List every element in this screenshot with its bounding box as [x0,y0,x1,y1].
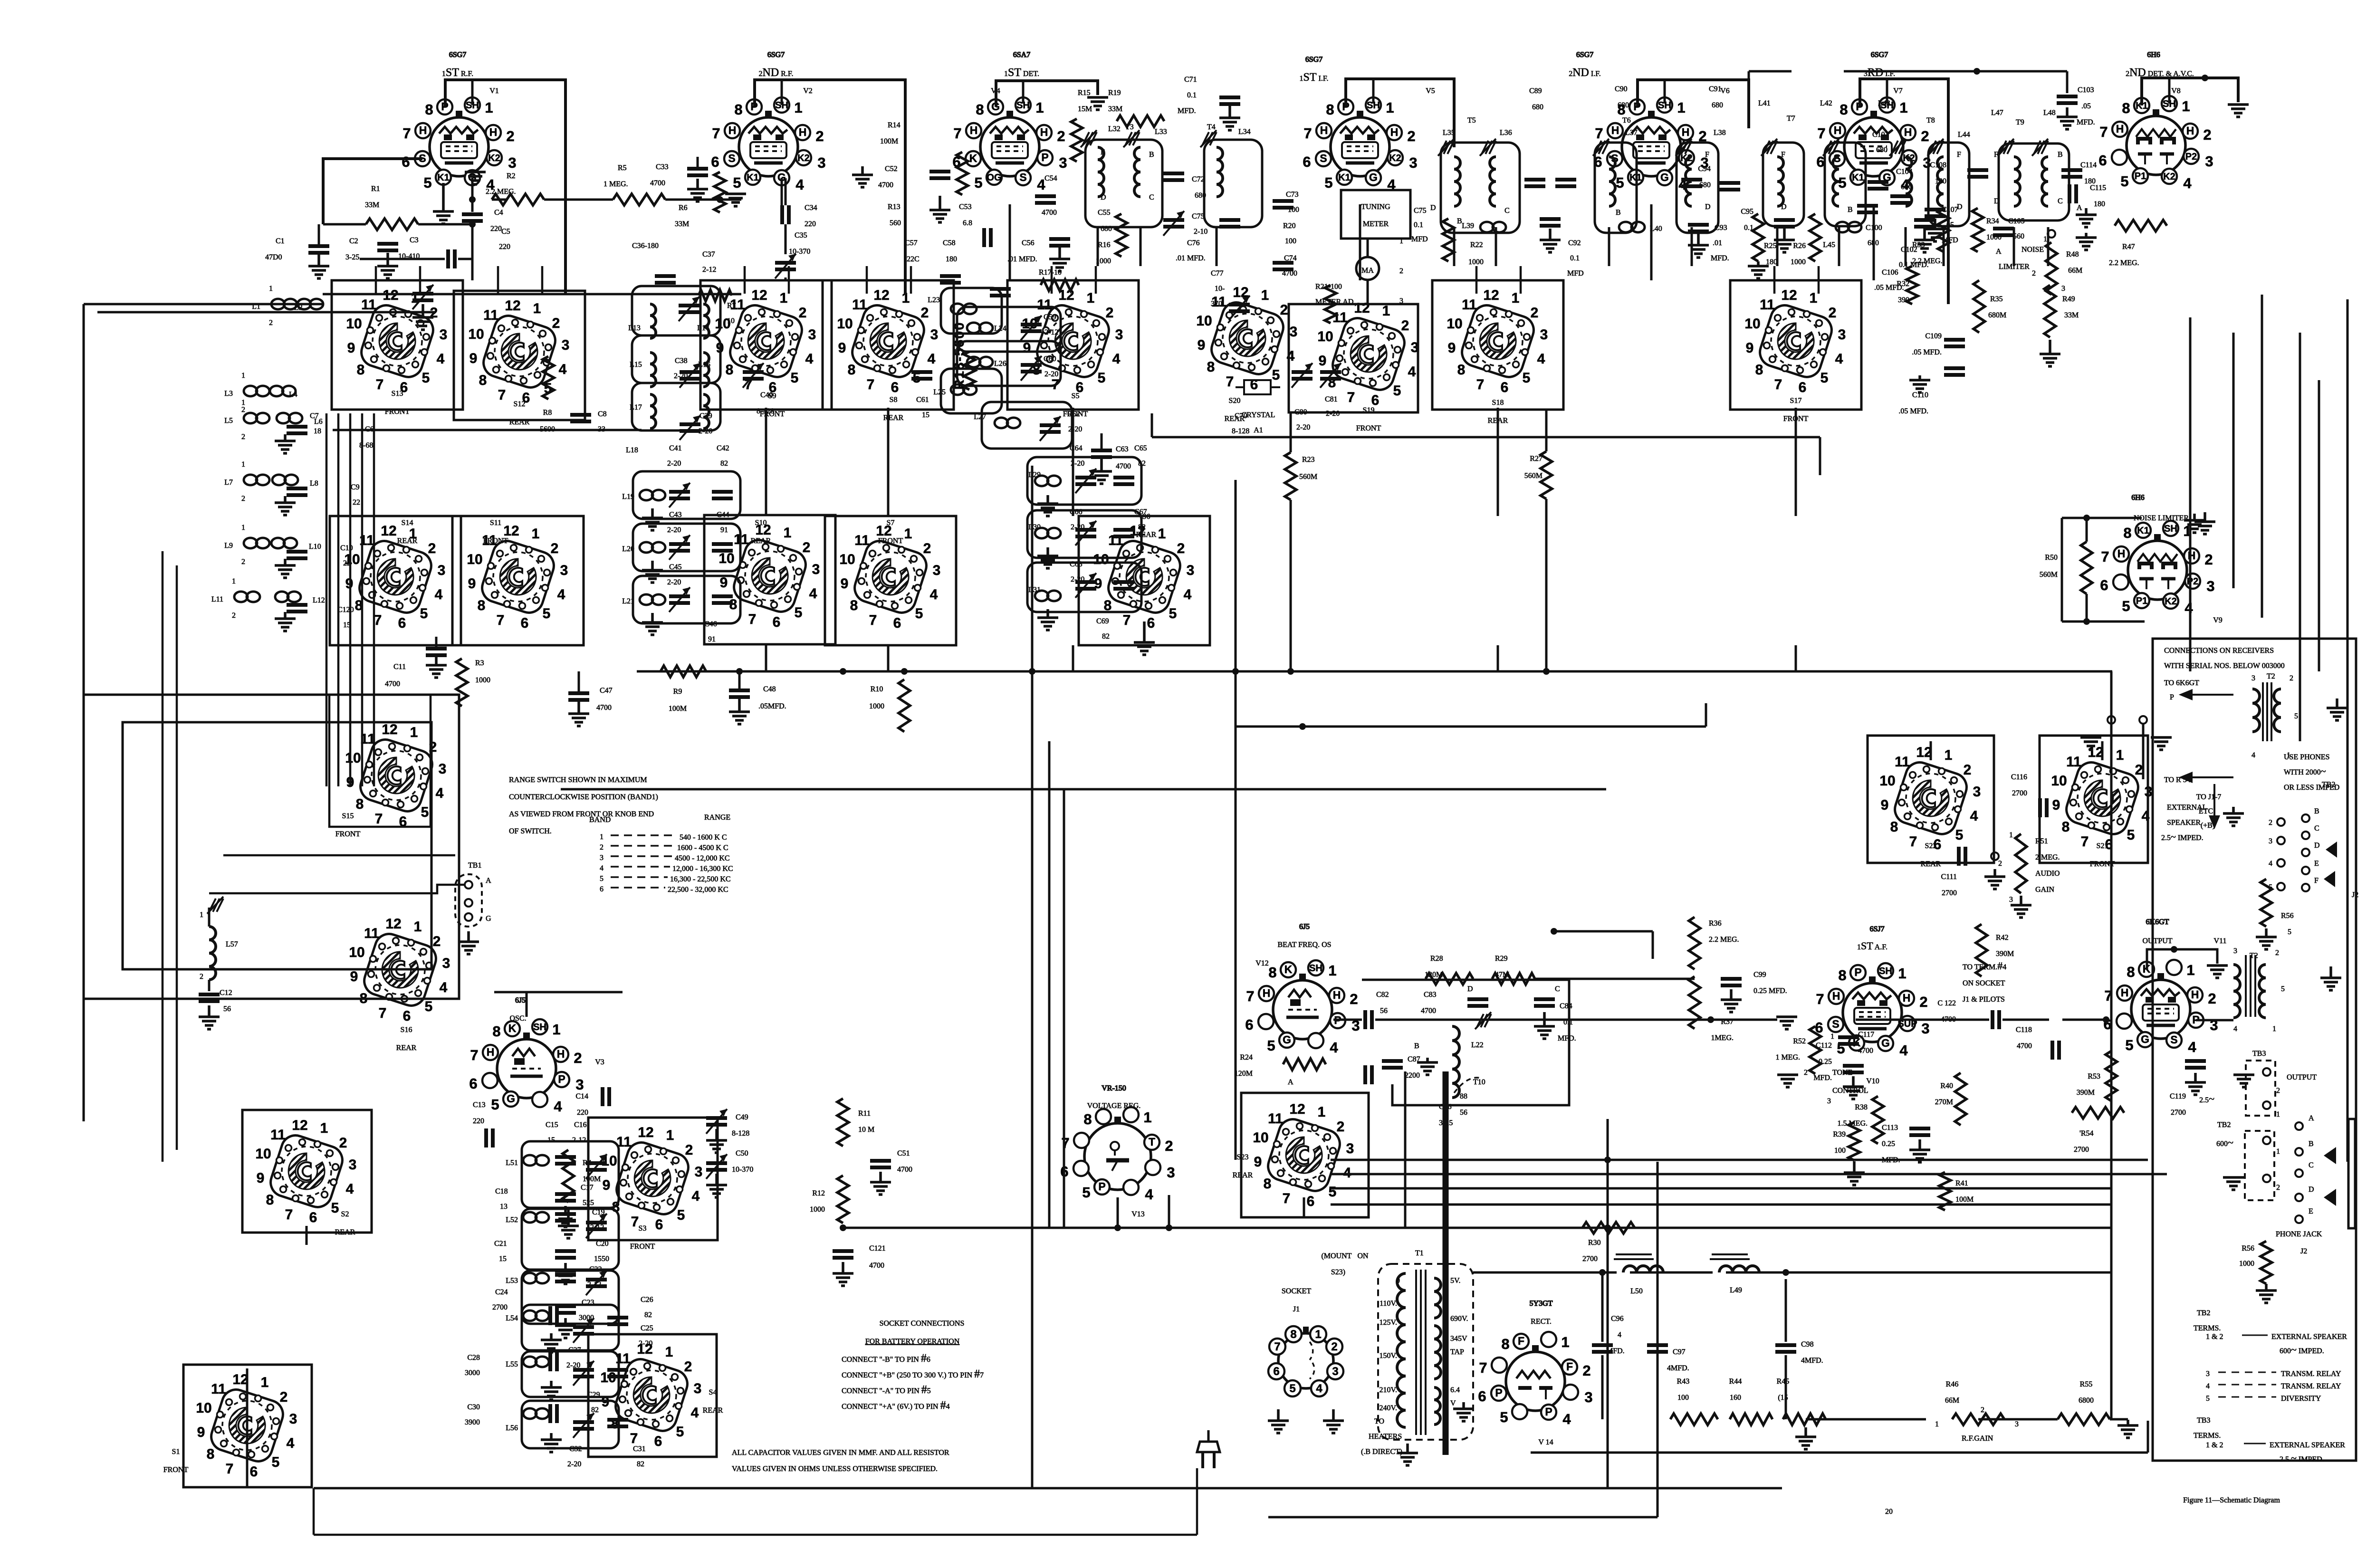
svg-text:H: H [2191,988,2199,1001]
svg-text:100M: 100M [1955,1195,1974,1204]
svg-text:L30: L30 [1028,523,1041,531]
svg-text:H: H [2121,986,2129,999]
svg-text:1: 1 [320,1120,328,1136]
svg-text:4MFD.: 4MFD. [1801,1357,1823,1365]
svg-text:8: 8 [1207,359,1215,375]
svg-text:7: 7 [869,612,877,628]
svg-text:L47: L47 [1991,109,2003,117]
svg-text:82: 82 [591,1406,599,1414]
svg-text:0.1: 0.1 [1187,91,1197,99]
svg-text:7: 7 [497,612,505,628]
svg-text:1MEG.: 1MEG. [1711,1034,1734,1042]
svg-text:15: 15 [499,1255,507,1263]
svg-text:4: 4 [346,1181,354,1197]
resistor R24 120M [1283,1059,1326,1070]
svg-text:V: V [1450,1399,1456,1407]
capacitor C101 680 [1868,180,1888,184]
svg-text:12: 12 [292,1118,307,1133]
capacitor C18 13 [555,1212,576,1216]
svg-text:R24: R24 [1240,1053,1253,1061]
stage wiring loop [1079,516,1210,645]
svg-text:100: 100 [1677,1394,1689,1402]
osc coil box L54 [522,1305,619,1350]
svg-text:4: 4 [692,1188,700,1204]
capacitor C114 180 [2061,168,2082,172]
svg-text:F: F [1781,151,1785,159]
svg-text:4: 4 [1316,1382,1322,1395]
svg-text:B: B [2309,1140,2314,1148]
svg-text:0.1: 0.1 [1570,254,1580,262]
wire bus y=1529 [1236,726,1706,728]
svg-text:D: D [1467,985,1473,993]
svg-text:5: 5 [1393,383,1401,399]
svg-text:RECT.: RECT. [1531,1318,1552,1326]
svg-text:2: 2 [921,305,929,321]
svg-text:5: 5 [974,174,982,191]
svg-text:R27: R27 [1530,455,1542,463]
svg-text:1000: 1000 [2239,1260,2254,1268]
trimmer capacitor C43 2-20 [669,542,690,546]
svg-text:2: 2 [1531,305,1539,321]
tube V8 6H6 [2098,96,2213,191]
wire verticals bottom middle [1607,1119,1609,1488]
svg-text:V5: V5 [1426,87,1435,95]
svg-text:F: F [1705,151,1709,159]
tube V5 6SG7 [1303,97,1417,193]
svg-text:4: 4 [930,587,938,602]
svg-text:2.2 MEG.: 2.2 MEG. [1709,936,1739,944]
ground under L10 [284,559,287,565]
svg-text:6800: 6800 [2079,1396,2094,1405]
svg-text:7: 7 [1274,1340,1280,1353]
resistor R7 10 [699,290,732,301]
svg-text:4: 4 [437,351,445,367]
svg-text:H: H [1333,989,1341,1001]
capacitor C58 180 [990,287,1011,291]
coil L16 [703,353,709,387]
svg-text:NOISE: NOISE [2022,246,2044,254]
svg-text:S7: S7 [887,519,895,527]
tube V9 6H6 noise limiter [2100,521,2214,616]
svg-text:R45: R45 [1777,1377,1790,1386]
svg-text:C113: C113 [1882,1124,1898,1132]
svg-text:6: 6 [1303,153,1311,170]
ground at noise limiter pot [2048,230,2055,238]
svg-text:2.5~ IMPED.: 2.5~ IMPED. [2161,832,2204,842]
stage wiring loop S1/S4 [183,1365,312,1487]
svg-text:1: 1 [1143,1109,1151,1126]
svg-text:L5: L5 [224,417,233,425]
wire noise limiter links [2062,517,2142,519]
svg-text:K2: K2 [797,153,810,163]
capacitor C59 2-12 [1021,323,1042,326]
svg-text:4: 4 [559,362,567,377]
svg-text:EXTERNAL SPEAKER: EXTERNAL SPEAKER [2271,1333,2347,1341]
svg-text:4: 4 [2269,860,2272,868]
svg-text:V3: V3 [595,1058,604,1066]
IF can L41/L42 [1763,143,1804,226]
capacitor C57 22C [940,274,961,278]
svg-text:C: C [1555,985,1560,993]
svg-text:11: 11 [361,297,376,313]
svg-text:1: 1 [261,1375,269,1390]
svg-text:V9: V9 [2213,616,2223,624]
svg-text:C11: C11 [393,663,406,671]
svg-text:1: 1 [1899,99,1907,116]
osc coil box L51 [522,1141,619,1208]
svg-text:370: 370 [1211,300,1222,308]
resistor R46 66M [1952,1414,2004,1425]
svg-text:L4: L4 [289,391,297,399]
svg-text:4: 4 [1835,351,1843,367]
svg-text:2: 2 [1401,318,1409,334]
svg-text:R34: R34 [1986,217,1999,225]
svg-text:9: 9 [469,351,478,366]
svg-text:4700: 4700 [878,181,893,189]
svg-text:P1: P1 [2136,596,2147,606]
svg-text:SOCKET: SOCKET [1282,1287,1311,1295]
rotary switch wafer S17 front [1744,287,1846,395]
svg-text:4: 4 [440,980,448,995]
ground under R49 [2049,340,2051,354]
wire vertical x=4940 [2347,299,2349,1162]
svg-text:0.25 MFD.: 0.25 MFD. [1753,987,1787,995]
capacitor C121 4700 [833,1249,853,1253]
svg-text:7: 7 [1061,1135,1069,1151]
svg-text:7: 7 [379,1005,387,1021]
svg-text:66M: 66M [1945,1396,1959,1405]
svg-text:L3: L3 [224,390,233,398]
svg-text:H: H [2117,547,2126,560]
svg-text:3: 3 [1409,154,1417,171]
rotary switch wafer S5 front [1022,287,1123,395]
capacitor C56 .01 MFD [1049,237,1070,241]
svg-text:4: 4 [809,586,817,602]
svg-text:C81: C81 [1325,395,1338,403]
svg-text:C77: C77 [1211,269,1224,277]
svg-text:1: 1 [2182,98,2190,115]
svg-text:3: 3 [817,154,825,171]
svg-text:4700: 4700 [1042,209,1057,217]
stage wiring loop [825,516,956,645]
stage wiring loop [452,516,584,645]
svg-text:8: 8 [1083,1111,1092,1128]
svg-text:6SJ7: 6SJ7 [1869,925,1884,933]
svg-text:R10: R10 [871,685,883,693]
svg-text:3: 3 [1346,1141,1354,1157]
svg-text:9: 9 [197,1425,205,1440]
shield can L17/L18 [632,383,720,430]
svg-text:R1: R1 [371,185,380,193]
svg-text:1: 1 [780,290,788,306]
svg-text:2-20: 2-20 [567,1460,581,1468]
svg-text:C31: C31 [633,1445,646,1453]
svg-text:4700: 4700 [897,1166,912,1174]
capacitor C111 2700 [1957,847,1961,866]
svg-text:CRYSTAL: CRYSTAL [1242,411,1275,419]
IF can T4 [1204,140,1262,227]
svg-text:2: 2 [2135,762,2143,778]
svg-text:1: 1 [410,725,418,740]
trimmer capacitor C50 10-370 [706,1161,727,1165]
svg-text:G: G [2141,1033,2149,1045]
oscillator coil L54 [523,1310,537,1321]
svg-text:R38: R38 [1855,1103,1868,1111]
svg-text:L56: L56 [506,1424,518,1432]
capacitor C15 15 [555,1155,576,1159]
svg-text:B: B [1149,151,1154,159]
resistor R44 160 [1730,1414,1772,1425]
svg-text:TRANSM. RELAY: TRANSM. RELAY [2281,1382,2341,1390]
svg-text:R23: R23 [1302,456,1315,464]
svg-text:L14: L14 [697,324,709,332]
svg-text:5: 5 [791,370,799,386]
svg-text:1: 1 [1158,526,1166,542]
capacitor C110 .05 MFD [1944,366,1965,370]
shield can L25 [941,369,1002,413]
svg-text:C4: C4 [494,209,503,217]
svg-text:2: 2 [1804,1069,1808,1077]
svg-text:8: 8 [492,1023,500,1040]
svg-text:560M: 560M [1299,473,1317,481]
capacitor C113 0.25 MFD [1909,1127,1930,1130]
capacitor C12 56 [199,993,220,996]
svg-text:3: 3 [1584,1389,1592,1405]
rotary switch wafer S8 rear [837,287,938,395]
svg-text:100M: 100M [880,137,898,145]
svg-text:H: H [487,1046,495,1058]
svg-text:.05 MFD.: .05 MFD. [1874,284,1904,292]
trimmer capacitor C41 2-20 [669,490,690,494]
svg-text:K2: K2 [488,153,500,163]
svg-text:R39: R39 [1833,1130,1846,1138]
IF can T9 [1999,143,2069,220]
svg-text:C7: C7 [310,412,319,420]
svg-text:S18: S18 [1492,399,1504,407]
shield can L27/C62 [982,402,1072,449]
ground circle at C111 [1991,852,1999,860]
svg-text:56: 56 [1460,1109,1467,1117]
svg-text:C103: C103 [2078,86,2094,94]
svg-text:120M: 120M [1235,1070,1253,1078]
resistor R40 270M [1955,1073,1966,1125]
svg-text:R52: R52 [1793,1037,1806,1045]
svg-text:8: 8 [1290,1328,1296,1341]
svg-text:K2: K2 [2165,596,2177,607]
svg-text:E: E [2309,1207,2313,1215]
svg-text:REAR: REAR [751,537,771,545]
svg-text:1: 1 [200,911,203,919]
svg-text:3: 3 [1921,1020,1929,1037]
capacitor C118 4700 [2050,1041,2054,1060]
svg-text:H: H [1682,126,1690,138]
svg-text:7: 7 [867,377,875,392]
svg-text:5: 5 [915,606,923,621]
svg-text:8: 8 [1755,362,1763,378]
svg-text:C119: C119 [2170,1092,2186,1100]
shield can L15/L16 [632,335,720,383]
svg-text:C76: C76 [1187,239,1200,247]
svg-text:2-10: 2-10 [1194,228,1207,236]
svg-text:1: 1 [1810,290,1818,306]
svg-text:1: 1 [1935,1420,1939,1428]
svg-text:10-370: 10-370 [732,1166,753,1174]
svg-text:J1 & PILOTS: J1 & PILOTS [1963,995,2005,1004]
svg-text:C65: C65 [1134,444,1147,452]
svg-text:3: 3 [2251,674,2255,682]
wire bus y=1661 [561,788,1606,791]
svg-text:11: 11 [1332,310,1348,325]
ground under L31 [1046,609,1049,618]
svg-text:1: 1 [2043,235,2047,243]
svg-text:REAR: REAR [1136,531,1157,539]
resistor R49 33M [2044,285,2056,337]
ground under L55 [550,1381,553,1387]
trimmer capacitor C81 2-20 [1320,370,1341,374]
svg-text:J1: J1 [1293,1305,1300,1313]
svg-text:1: 1 [666,1128,674,1143]
svg-text:R14: R14 [888,121,901,129]
wire C103 drop [2066,71,2069,93]
svg-text:1: 1 [1386,99,1394,116]
svg-text:A: A [1996,248,2002,256]
svg-text:10: 10 [1879,773,1895,789]
svg-text:4: 4 [2184,600,2193,616]
svg-text:10: 10 [255,1146,271,1162]
svg-text:R51: R51 [2035,837,2048,845]
rotary switch wafer S21 front [2051,745,2152,852]
svg-text:K1: K1 [747,172,759,183]
wire V9 bottom [2062,621,2145,623]
svg-text:220: 220 [473,1117,484,1125]
ground under L8 [284,496,287,503]
svg-text:56: 56 [223,1005,231,1013]
capacitor C109 .05 MFD [1944,338,1965,342]
capacitor C44 91 [712,542,733,546]
svg-text:82: 82 [644,1311,652,1319]
capacitor C11 4700 [426,647,447,650]
oscillator coil L52 [523,1212,537,1223]
svg-text:3: 3 [508,154,516,171]
svg-text:TB3: TB3 [2252,1050,2266,1058]
svg-text:L48: L48 [2043,109,2056,117]
svg-text:390: 390 [1898,296,1909,304]
svg-text:C: C [1504,207,1510,215]
svg-text:R42: R42 [1996,934,2009,942]
capacitor C29 82 [607,1368,628,1372]
svg-text:C41: C41 [669,444,682,452]
svg-text:180: 180 [1935,177,1946,185]
svg-text:K1: K1 [2137,526,2149,536]
svg-text:12: 12 [385,916,401,932]
svg-text:1: 1 [1677,99,1685,116]
resistor R34 1000 [1972,208,1983,252]
wire rf gain run [1806,1418,1926,1421]
svg-text:SH: SH [1879,966,1892,976]
svg-text:1 MEG.: 1 MEG. [1775,1053,1800,1061]
capacitor C24 2700 [548,1306,552,1325]
svg-text:USE PHONES: USE PHONES [2284,753,2329,761]
svg-text:C106: C106 [1882,268,1898,277]
svg-text:100: 100 [1288,206,1299,214]
ground under L29 [1046,495,1049,504]
svg-text:4: 4 [1899,1042,1908,1059]
svg-text:2: 2 [923,541,931,556]
svg-text:6: 6 [1250,377,1258,392]
rotary switch wafer S19 front [1317,300,1418,408]
svg-text:FRONT: FRONT [878,537,903,545]
svg-text:1: 1 [2287,751,2290,759]
svg-text:8-128: 8-128 [732,1129,749,1138]
svg-text:6: 6 [893,615,901,631]
svg-text:2: 2 [433,934,441,949]
svg-text:6: 6 [2098,152,2107,169]
svg-text:7: 7 [1123,612,1131,628]
svg-text:L45: L45 [1823,241,1835,249]
svg-text:1: 1 [232,577,236,585]
svg-text:12: 12 [1781,287,1797,303]
svg-text:10-370: 10-370 [789,248,810,256]
rotary switch wafer S10 rear [719,522,820,630]
svg-text:FOR BATTERY OPERATION: FOR BATTERY OPERATION [865,1338,960,1346]
svg-text:1: 1 [1945,747,1953,763]
svg-text:1: 1 [241,460,245,468]
svg-text:C9: C9 [351,483,360,491]
svg-text:L18: L18 [626,446,638,454]
svg-text:7: 7 [1909,834,1917,850]
svg-text:D: D [1705,203,1711,211]
svg-text:8: 8 [850,598,858,613]
svg-text:5: 5 [1098,370,1106,386]
svg-text:6SA7: 6SA7 [1013,51,1030,59]
svg-text:R29: R29 [1495,955,1508,963]
wire V11 top [2147,949,2217,969]
svg-text:2-12: 2-12 [590,1224,604,1232]
svg-text:MFD.: MFD. [1558,1034,1576,1042]
svg-text:C118: C118 [2016,1026,2032,1034]
svg-text:C116: C116 [2011,773,2027,781]
svg-text:6SG7: 6SG7 [767,51,785,59]
tube V12 6J5 beat freq. oscillator [1245,960,1360,1056]
svg-text:10: 10 [1196,313,1212,329]
svg-text:11: 11 [364,926,379,941]
capacitor C28 3000 [548,1352,552,1371]
svg-text:12: 12 [381,523,396,539]
svg-text:4700: 4700 [869,1262,884,1270]
svg-text:6: 6 [891,380,899,395]
svg-text:C16: C16 [574,1121,587,1129]
svg-text:L41: L41 [1758,99,1771,107]
svg-text:TB2: TB2 [2322,781,2335,789]
svg-text:7: 7 [1817,125,1825,142]
svg-text:2: 2 [339,1135,347,1151]
svg-text:R56: R56 [2281,912,2294,920]
stage wiring loop S23 [1241,1093,1369,1217]
svg-text:2-12: 2-12 [702,266,716,274]
capacitor C2 3-25 [377,242,398,246]
svg-text:220: 220 [490,225,502,233]
svg-text:P: P [1545,1405,1552,1418]
svg-text:110V.: 110V. [1380,1300,1397,1308]
stage wiring loop S2/S3 [242,1110,372,1233]
svg-text:10: 10 [727,317,735,325]
svg-text:7: 7 [470,1047,478,1063]
wire avc verticals [2189,317,2192,671]
coil L30 [1035,528,1048,538]
svg-text:OSC.: OSC. [509,1014,526,1023]
resistor R19 33M [1117,115,1164,127]
wire power area [1473,1272,1617,1274]
